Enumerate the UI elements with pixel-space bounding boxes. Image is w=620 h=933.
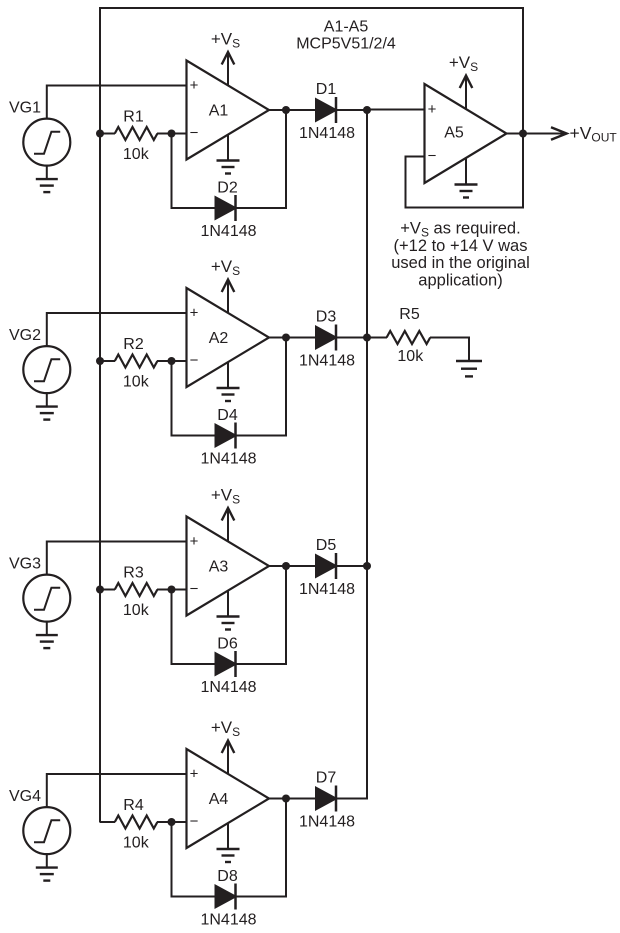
svg-text:used in the original: used in the original — [391, 254, 530, 272]
wire feedback loop A1 — [172, 134, 216, 209]
wire feedback loop A4 — [172, 822, 216, 897]
svg-text:R4: R4 — [123, 797, 144, 814]
wire D3 to OR bus — [336, 337, 368, 339]
svg-text:D7: D7 — [316, 770, 337, 787]
svg-text:−: − — [190, 352, 199, 369]
wire OR bus to R5 — [367, 337, 387, 339]
svg-text:+: + — [190, 533, 199, 550]
svg-text:R2: R2 — [123, 336, 144, 353]
wire: top feedback rail — [100, 7, 523, 9]
node: OR-bus junction (D3) — [363, 334, 371, 342]
resistor R2 — [115, 355, 158, 368]
node: R3-feedback junction — [168, 586, 176, 594]
node: R1-feedback junction — [168, 130, 176, 138]
node: bus-R2 junction — [96, 357, 104, 365]
signal source VG4 — [23, 807, 70, 854]
wire bus to R3 — [100, 589, 115, 591]
resistor R4 — [115, 816, 158, 829]
wire D1 to OR bus — [336, 109, 368, 111]
svg-text:A5: A5 — [444, 125, 464, 142]
wire R3 to A3 inverting input — [157, 589, 188, 591]
svg-text:D2: D2 — [217, 180, 238, 197]
svg-text:+: + — [428, 101, 437, 118]
ground (A5) — [465, 159, 467, 185]
svg-text:MCP5V51/2/4: MCP5V51/2/4 — [296, 35, 396, 52]
wire A4 output — [269, 798, 317, 800]
wire: diode-OR bus vertical — [366, 110, 368, 799]
svg-text:+: + — [190, 77, 199, 94]
wire A2 output — [269, 337, 317, 339]
ground (VG4) — [46, 854, 48, 868]
wire A5 output — [507, 133, 524, 135]
svg-text:A2: A2 — [209, 330, 229, 347]
wire bus to R1 — [100, 133, 115, 135]
svg-text:1N4148: 1N4148 — [200, 223, 256, 240]
svg-text:D1: D1 — [316, 81, 337, 98]
svg-text:VG2: VG2 — [9, 327, 41, 344]
resistor R3 — [115, 583, 158, 596]
svg-text:1N4148: 1N4148 — [200, 679, 256, 696]
diode D8 — [216, 886, 236, 908]
svg-text:D6: D6 — [217, 636, 238, 653]
wire D5 to OR bus — [336, 565, 368, 567]
svg-text:R1: R1 — [123, 109, 144, 126]
wire A5 feedback loop — [406, 157, 525, 208]
svg-text:1N4148: 1N4148 — [299, 125, 355, 142]
node: A4 output junction — [282, 795, 290, 803]
svg-text:1N4148: 1N4148 — [299, 353, 355, 370]
wire bus to R4 — [100, 821, 115, 823]
wire feedback loop A3 — [172, 590, 216, 665]
node: A3 output junction — [282, 562, 290, 570]
node: bus-R3 junction — [96, 586, 104, 594]
+VS supply arrow (A1) — [227, 54, 229, 85]
wire: left feedback bus — [99, 7, 101, 823]
svg-text:application): application) — [418, 271, 502, 289]
node: R4-feedback junction — [168, 818, 176, 826]
svg-text:R5: R5 — [399, 306, 420, 323]
ground (VG1) — [46, 166, 48, 180]
wire D7 to OR bus — [336, 798, 368, 800]
svg-text:1N4148: 1N4148 — [299, 581, 355, 598]
svg-text:R3: R3 — [123, 565, 144, 582]
wire R5 to ground — [430, 338, 469, 361]
node: R2-feedback junction — [168, 357, 176, 365]
+VS supply arrow (A3) — [227, 510, 229, 541]
svg-text:(+12 to +14 V was: (+12 to +14 V was — [394, 237, 528, 255]
svg-text:−: − — [190, 813, 199, 830]
wire VG1 to A1 noninverting input — [47, 86, 188, 119]
wire VG4 to A4 noninverting input — [47, 774, 188, 807]
node: A2 output junction — [282, 334, 290, 342]
ground (R5) — [468, 338, 470, 362]
svg-text:1N4148: 1N4148 — [299, 814, 355, 831]
node: OR-bus junction (D5) — [363, 562, 371, 570]
op-amp A1 — [187, 61, 270, 160]
svg-text:10k: 10k — [123, 834, 150, 851]
svg-text:D8: D8 — [217, 868, 238, 885]
svg-text:1N4148: 1N4148 — [200, 912, 256, 929]
diode D2 — [216, 197, 236, 219]
wire feedback loop A2 — [172, 361, 216, 436]
wire OR bus to A5 noninverting input — [367, 109, 426, 111]
op-amp A4 — [187, 749, 270, 848]
node: A5 output junction — [519, 130, 527, 138]
svg-text:10k: 10k — [123, 602, 150, 619]
svg-text:D3: D3 — [316, 309, 337, 326]
node: bus-R1 junction — [96, 130, 104, 138]
svg-text:VG1: VG1 — [9, 100, 41, 117]
diode D1 — [316, 99, 336, 121]
diode D3 — [316, 327, 336, 349]
resistor R1 — [115, 127, 158, 140]
wire R4 to A4 inverting input — [157, 821, 188, 823]
wire VG2 to A2 noninverting input — [47, 313, 188, 346]
wire A3 output — [269, 565, 317, 567]
+VS supply arrow (A4) — [227, 743, 229, 774]
signal source VG1 — [23, 119, 70, 166]
diode D7 — [316, 788, 336, 810]
signal source VG2 — [23, 346, 70, 393]
op-amp A3 — [187, 517, 270, 616]
svg-text:A3: A3 — [209, 559, 229, 576]
ground (A1) — [227, 135, 229, 161]
resistor R5 — [387, 331, 431, 344]
svg-text:D4: D4 — [217, 407, 238, 424]
node: A1 output junction — [282, 106, 290, 114]
op-amp A5 — [425, 84, 507, 183]
svg-text:+: + — [190, 766, 199, 783]
op-amp A2 — [187, 288, 270, 387]
svg-text:VG4: VG4 — [9, 788, 41, 805]
svg-text:A4: A4 — [209, 791, 229, 808]
svg-text:10k: 10k — [397, 348, 424, 365]
wire R2 to A2 inverting input — [157, 360, 188, 362]
svg-text:10k: 10k — [123, 373, 150, 390]
ground (A2) — [227, 363, 229, 389]
wire: A5 output vertical rail — [522, 7, 524, 208]
svg-text:D5: D5 — [316, 537, 337, 554]
svg-text:A1: A1 — [209, 103, 229, 120]
svg-text:−: − — [190, 581, 199, 598]
diode D4 — [216, 425, 236, 447]
wire VG3 to A3 noninverting input — [47, 542, 188, 575]
wire bus to R2 — [100, 360, 115, 362]
ground (VG3) — [46, 622, 48, 636]
output arrow +VOUT — [523, 133, 566, 135]
ground (VG2) — [46, 393, 48, 407]
ground (A4) — [227, 824, 229, 850]
svg-text:A1-A5: A1-A5 — [324, 19, 369, 36]
svg-text:1N4148: 1N4148 — [200, 451, 256, 468]
+VS supply arrow (A2) — [227, 282, 229, 313]
wire A1 output — [269, 109, 317, 111]
diode D5 — [316, 555, 336, 577]
node: OR-bus junction (D1) — [363, 106, 371, 114]
svg-text:−: − — [428, 148, 437, 165]
signal source VG3 — [23, 575, 70, 622]
ground (A3) — [227, 591, 229, 617]
+VS supply arrow (A5) — [465, 78, 467, 109]
svg-text:−: − — [190, 125, 199, 142]
wire R1 to A1 inverting input — [157, 133, 188, 135]
svg-text:10k: 10k — [123, 146, 150, 163]
svg-text:+: + — [190, 305, 199, 322]
diode D6 — [216, 653, 236, 675]
svg-text:VG3: VG3 — [9, 556, 41, 573]
